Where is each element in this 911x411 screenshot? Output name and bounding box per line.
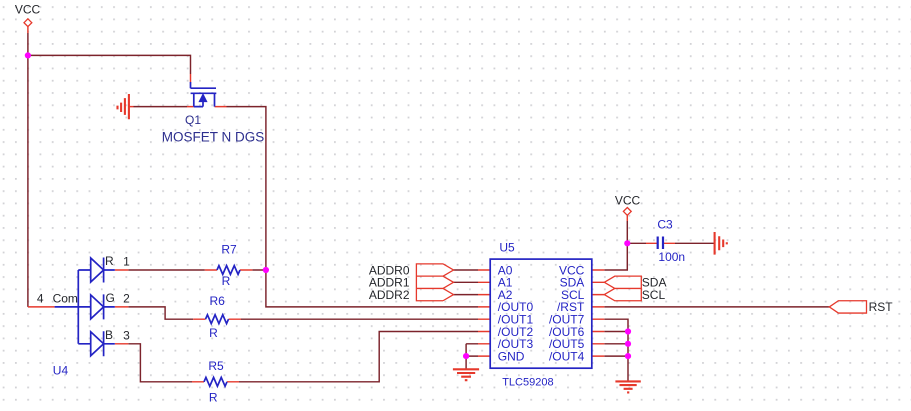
svg-text:R7: R7 (221, 242, 237, 256)
svg-text:VCC: VCC (615, 194, 641, 208)
svg-text:R6: R6 (210, 294, 226, 308)
svg-text:Com: Com (53, 292, 78, 306)
svg-text:1: 1 (123, 255, 130, 269)
svg-text:RST: RST (869, 300, 894, 314)
svg-text:2: 2 (123, 292, 130, 306)
svg-text:B: B (105, 328, 113, 342)
svg-text:VCC: VCC (15, 3, 41, 17)
svg-text:4: 4 (37, 292, 44, 306)
svg-text:/OUT4: /OUT4 (549, 349, 585, 363)
svg-text:TLC59208: TLC59208 (502, 376, 553, 388)
svg-text:R: R (105, 254, 114, 268)
svg-text:G: G (106, 291, 115, 305)
svg-text:R: R (222, 274, 231, 288)
svg-text:R: R (209, 391, 218, 405)
svg-text:ADDR2: ADDR2 (369, 288, 410, 302)
svg-text:R: R (209, 326, 218, 340)
svg-text:SCL: SCL (642, 288, 666, 302)
svg-text:MOSFET N DGS: MOSFET N DGS (162, 130, 265, 145)
svg-text:U5: U5 (499, 241, 515, 255)
svg-text:Q1: Q1 (185, 113, 201, 127)
svg-text:100n: 100n (658, 250, 685, 264)
svg-text:C3: C3 (657, 218, 673, 232)
svg-text:GND: GND (498, 349, 525, 363)
svg-text:3: 3 (123, 329, 130, 343)
svg-text:U4: U4 (53, 363, 69, 377)
svg-text:R5: R5 (208, 359, 224, 373)
